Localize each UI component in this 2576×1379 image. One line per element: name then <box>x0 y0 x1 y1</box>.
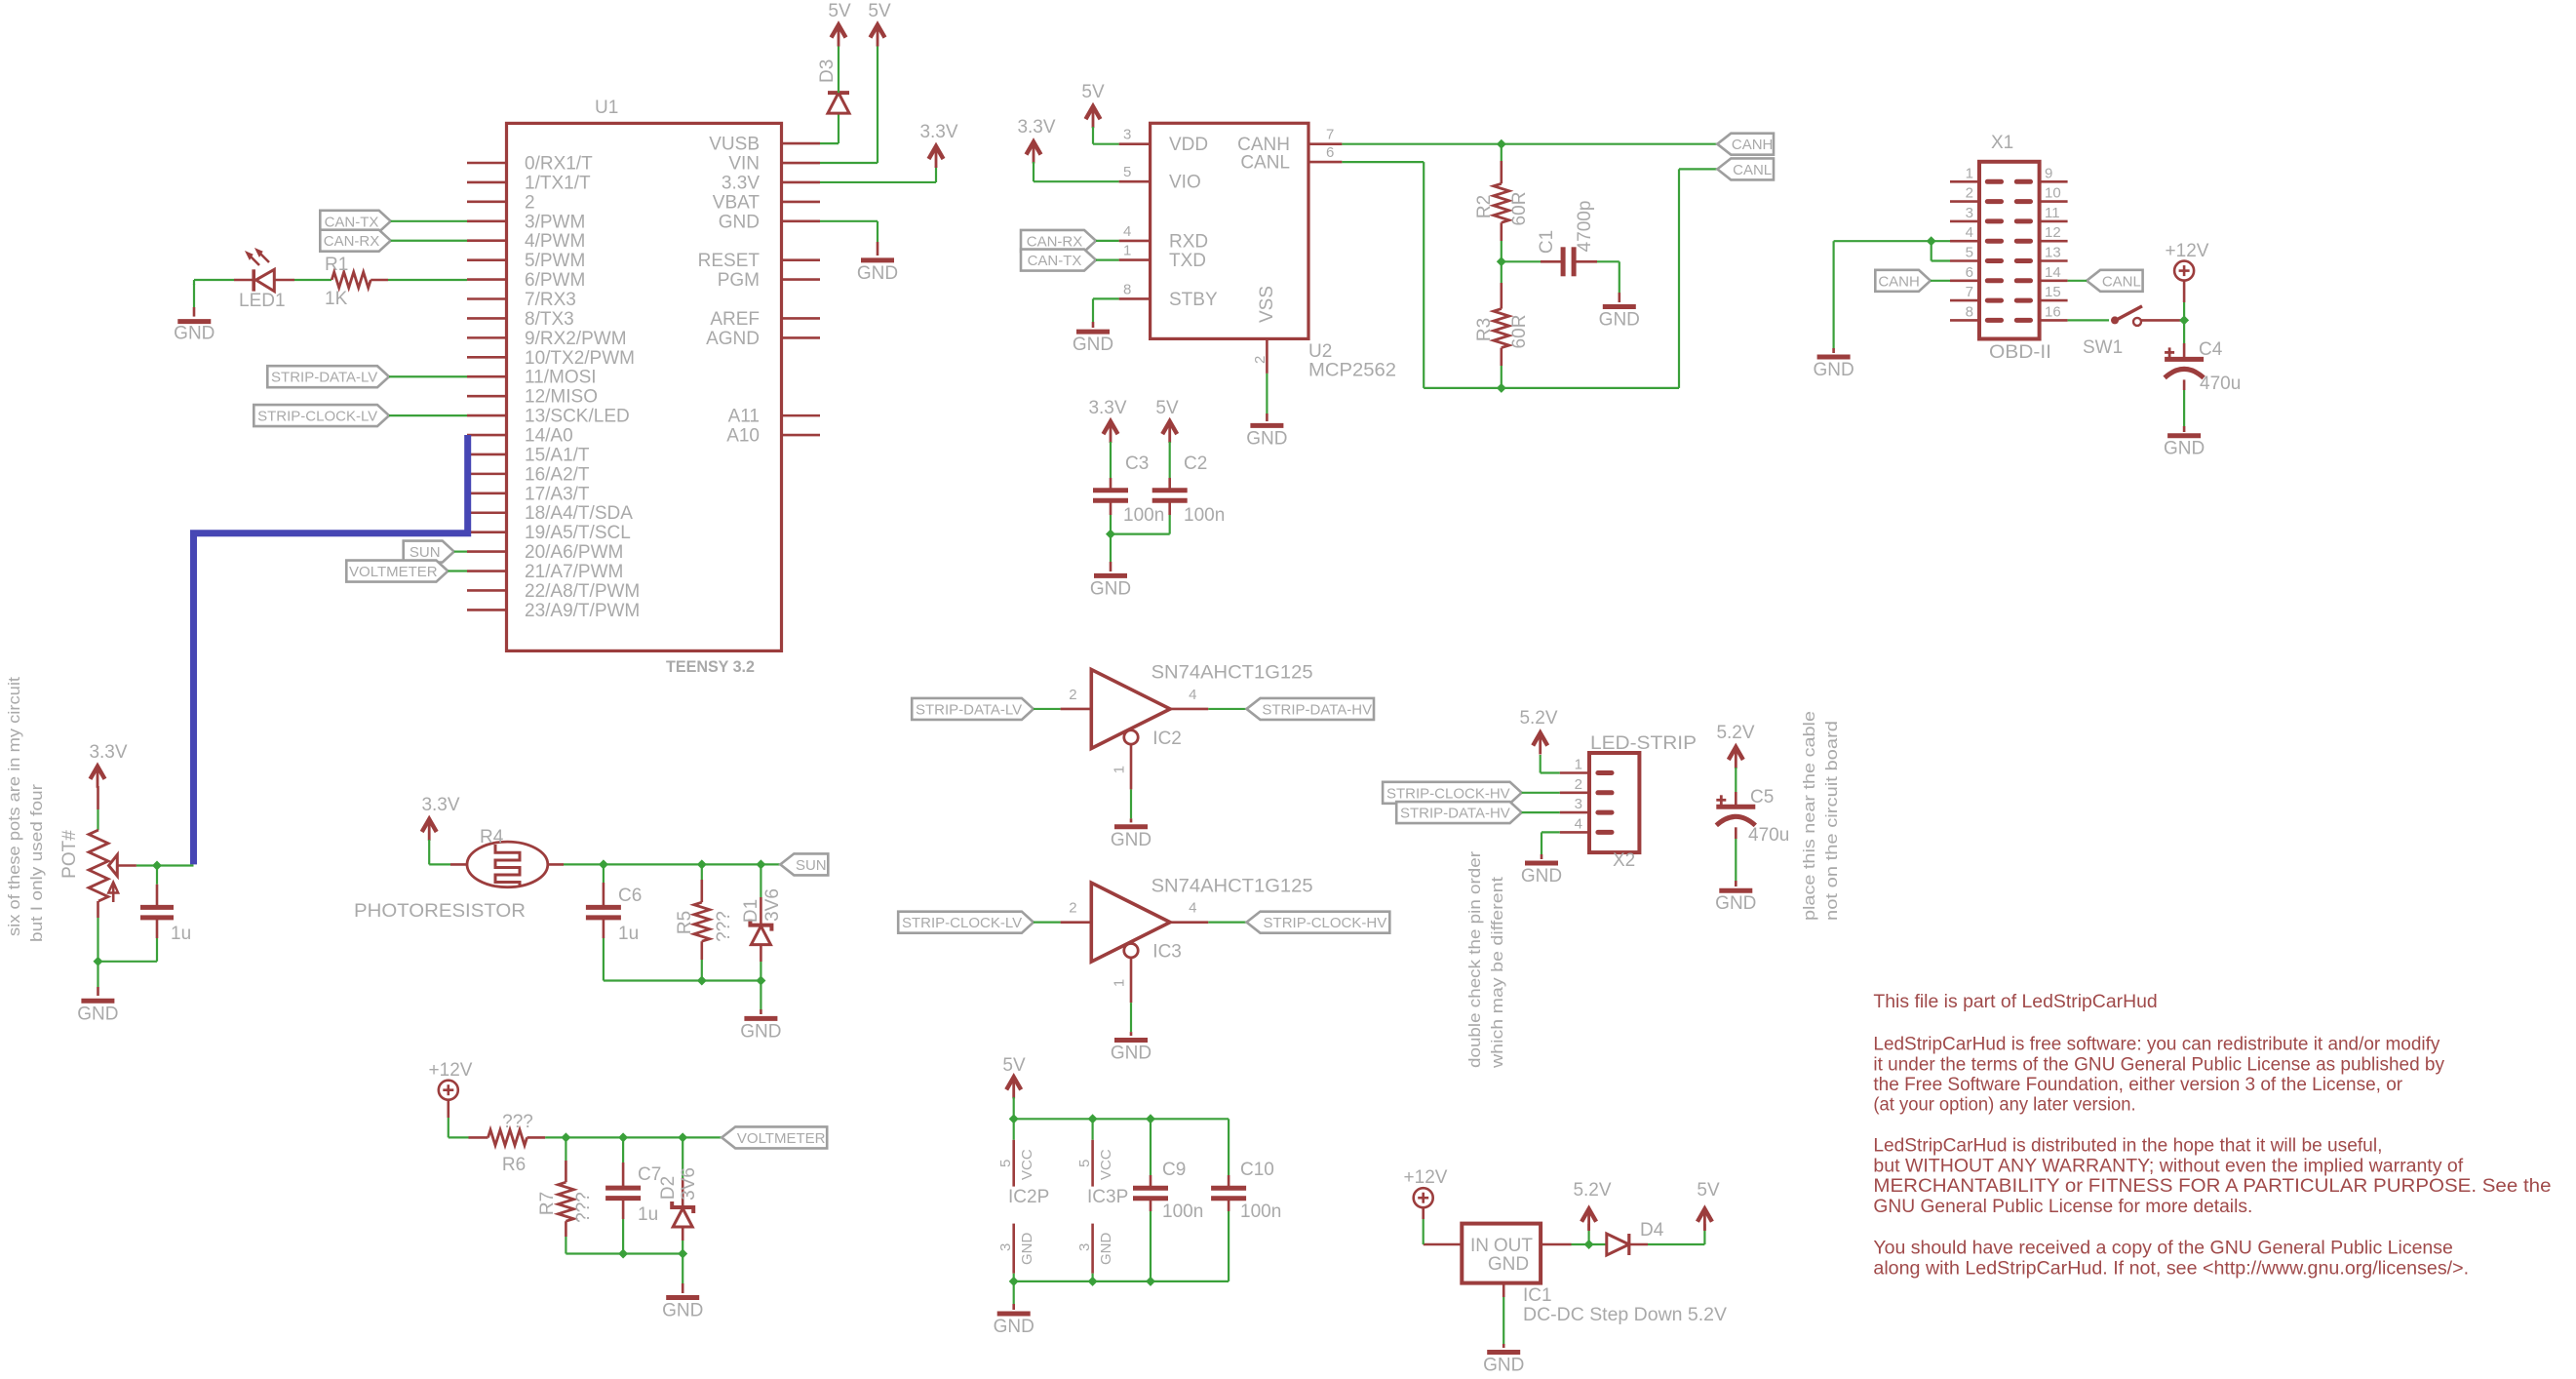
supply 3.3V (U1) <box>919 122 957 168</box>
net flag VOLTMETER (divider side) <box>722 1126 827 1148</box>
svg-text:GND: GND <box>1111 1044 1151 1064</box>
capacitor C3 100n <box>1093 453 1164 526</box>
svg-text:CANH: CANH <box>1732 137 1774 153</box>
svg-text:TXD: TXD <box>1169 251 1206 271</box>
net flag STRIP-CLOCK-HV (IC3 out) <box>1247 912 1390 933</box>
svg-text:CAN-TX: CAN-TX <box>325 214 379 230</box>
svg-text:GND: GND <box>719 212 760 232</box>
net flag CAN-TX (U1) <box>320 211 390 232</box>
wire VSS to GND <box>1266 374 1268 421</box>
svg-text:SW1: SW1 <box>2083 337 2123 358</box>
svg-text:2: 2 <box>525 192 535 213</box>
svg-text:STRIP-DATA-HV: STRIP-DATA-HV <box>1262 701 1372 718</box>
zener diode D1 3V6 <box>741 888 783 945</box>
svg-text:60R: 60R <box>1509 192 1530 226</box>
ground (C1) <box>1599 307 1640 331</box>
wire VIN to 5V <box>820 45 878 163</box>
svg-text:RXD: RXD <box>1169 231 1208 252</box>
svg-text:11: 11 <box>2045 205 2060 221</box>
svg-text:???: ??? <box>573 1192 594 1223</box>
supply 3.3V (C3) <box>1088 398 1126 443</box>
wire R3 to CANL line <box>1501 348 1503 388</box>
svg-text:STRIP-CLOCK-HV: STRIP-CLOCK-HV <box>1386 785 1510 802</box>
svg-text:C1: C1 <box>1537 230 1557 254</box>
supply 3.3V (POT) <box>89 742 127 788</box>
note: six of these pots <box>5 677 46 942</box>
svg-text:GND: GND <box>1488 1254 1529 1275</box>
wire C9 bottom <box>1150 1199 1152 1281</box>
svg-text:5V: 5V <box>1081 82 1105 102</box>
svg-text:X2: X2 <box>1613 850 1635 871</box>
power +12V (IC1) <box>1404 1167 1448 1207</box>
svg-text:VSS: VSS <box>1257 286 1277 323</box>
ground (C5) <box>1715 890 1756 914</box>
wire 5V to VCC bus <box>1013 1097 1015 1119</box>
supply 3.3V (R4) <box>421 795 459 841</box>
svg-text:5V: 5V <box>868 1 891 21</box>
svg-text:5: 5 <box>1123 164 1131 180</box>
svg-text:VUSB: VUSB <box>709 135 760 155</box>
wire X1 pin16 to SW1 <box>2068 319 2109 321</box>
svg-text:double check the pin order: double check the pin order <box>1465 851 1484 1068</box>
wire 5.2V to C5 <box>1735 768 1737 807</box>
wire CAN-TX to pin3 <box>391 220 467 222</box>
svg-text:VIO: VIO <box>1169 173 1201 193</box>
svg-text:4: 4 <box>1966 224 1973 241</box>
note: place this near the cable <box>1800 711 1841 921</box>
wire X2 pin4 to GND <box>1542 832 1560 859</box>
svg-text:8: 8 <box>1123 281 1131 297</box>
svg-text:1u: 1u <box>618 924 639 944</box>
GPL license text block <box>1873 992 2551 1280</box>
svg-text:CANH: CANH <box>1878 273 1920 290</box>
wire CANL net <box>1342 162 1717 393</box>
svg-text:3.3V: 3.3V <box>1017 117 1055 138</box>
svg-text:18/A4/T/SDA: 18/A4/T/SDA <box>525 503 633 524</box>
net flag STRIP-CLOCK-LV (U1) <box>254 405 389 426</box>
svg-text:LedStripCarHud is distributed: LedStripCarHud is distributed in the hop… <box>1873 1136 2382 1157</box>
svg-text:+12V: +12V <box>429 1060 473 1081</box>
svg-text:which may be different: which may be different <box>1488 877 1506 1069</box>
resistor R6 <box>488 1112 533 1175</box>
wire STBY to GND <box>1093 298 1119 328</box>
svg-text:14: 14 <box>2045 264 2061 281</box>
wire C4 to GND <box>2183 379 2186 432</box>
svg-text:6/PWM: 6/PWM <box>525 270 585 291</box>
svg-text:MERCHANTABILITY or FITNESS FOR: MERCHANTABILITY or FITNESS FOR A PARTICU… <box>1873 1176 2551 1197</box>
wire C10 bottom <box>1228 1199 1230 1281</box>
svg-text:7/RX3: 7/RX3 <box>525 290 576 310</box>
ground (U2 STBY) <box>1073 332 1113 355</box>
wire D1 to bus <box>760 946 762 981</box>
svg-text:D4: D4 <box>1640 1220 1664 1241</box>
svg-text:1: 1 <box>1111 766 1127 773</box>
ground (IC1) <box>1483 1353 1524 1376</box>
svg-text:D3: D3 <box>817 59 838 83</box>
zener diode D2 3V6 <box>658 1167 699 1227</box>
net flag SUN (R4 side) <box>780 853 828 875</box>
svg-text:9: 9 <box>2045 165 2052 181</box>
LED LED1 <box>239 249 286 311</box>
svg-text:12: 12 <box>2045 224 2061 241</box>
wire 5V to VDD <box>1093 127 1119 144</box>
svg-text:5: 5 <box>1076 1160 1093 1167</box>
microcontroller U1 TEENSY 3.2 <box>467 98 820 676</box>
svg-text:POT#: POT# <box>59 830 80 879</box>
net flag STRIP-CLOCK-LV (IC3 in) <box>898 912 1034 933</box>
svg-text:GND: GND <box>1098 1233 1114 1266</box>
svg-text:6: 6 <box>1966 264 1973 281</box>
resistor R5 <box>675 902 734 942</box>
svg-text:VBAT: VBAT <box>713 192 761 213</box>
svg-text:STRIP-CLOCK-LV: STRIP-CLOCK-LV <box>902 915 1022 931</box>
svg-text:C10: C10 <box>1240 1160 1274 1180</box>
svg-text:3/PWM: 3/PWM <box>525 212 585 232</box>
svg-text:This file is part of LedStripC: This file is part of LedStripCarHud <box>1873 992 2157 1012</box>
supply 5V (C2) <box>1155 398 1179 443</box>
power pins IC2P <box>997 1119 1049 1281</box>
svg-text:A11: A11 <box>728 407 760 427</box>
wire OUT node <box>1572 1224 1594 1249</box>
svg-text:CAN-TX: CAN-TX <box>1028 253 1082 269</box>
svg-text:8/TX3: 8/TX3 <box>525 309 574 330</box>
svg-text:CANL: CANL <box>1733 162 1772 178</box>
svg-text:GND: GND <box>77 1004 118 1024</box>
svg-text:60R: 60R <box>1509 315 1530 349</box>
capacitor 1u (POT filter) <box>140 907 191 944</box>
svg-text:not on the circuit board: not on the circuit board <box>1822 721 1841 921</box>
svg-text:6: 6 <box>1326 144 1334 161</box>
ground (IC3) <box>1111 1041 1151 1064</box>
svg-text:SUN: SUN <box>410 544 441 561</box>
buffer IC3 SN74AHCT1G125 <box>1061 876 1313 1036</box>
wire voltmeter bottom bus <box>566 1249 687 1294</box>
svg-text:4/PWM: 4/PWM <box>525 231 585 252</box>
wire U1 GND <box>820 221 878 256</box>
svg-text:3: 3 <box>997 1243 1014 1251</box>
wire STRIP-CLOCK-LV to IC3 <box>1034 922 1061 924</box>
svg-text:CAN-RX: CAN-RX <box>324 233 380 250</box>
svg-text:AGND: AGND <box>706 329 760 349</box>
svg-text:1: 1 <box>1575 757 1582 773</box>
wire node down to C8 <box>156 866 158 908</box>
svg-text:STRIP-DATA-LV: STRIP-DATA-LV <box>271 370 377 386</box>
wire CANH to R2 <box>1501 144 1503 184</box>
svg-text:16: 16 <box>2045 303 2061 320</box>
potentiometer POT# <box>59 830 118 902</box>
ground (LED1) <box>174 322 215 344</box>
wire LED1 to R1 <box>274 279 332 282</box>
svg-text:GND: GND <box>857 263 898 284</box>
wire CANH to X1 pin6 <box>1931 280 1950 282</box>
capacitor C9 100n <box>1133 1160 1203 1222</box>
supply 3.3V (U2 VIO) <box>1017 117 1055 164</box>
wire IC2 out <box>1208 708 1246 710</box>
photoresistor R4 <box>354 827 548 922</box>
svg-text:R2: R2 <box>1474 195 1495 218</box>
svg-text:along with LedStripCarHud. If: along with LedStripCarHud. If not, see <… <box>1873 1258 2469 1279</box>
net flag STRIP-DATA-LV (IC2 in) <box>912 698 1034 720</box>
svg-text:3.3V: 3.3V <box>919 122 957 142</box>
wire STRIP-CLOCK-LV to pin13 <box>389 414 467 416</box>
wire node to C4 <box>2183 320 2185 359</box>
regulator IC1 DC-DC Step Down 5.2V <box>1424 1224 1728 1325</box>
net flag STRIP-DATA-HV (X2) <box>1396 802 1521 823</box>
svg-text:3: 3 <box>1575 796 1582 812</box>
svg-text:GND: GND <box>1813 360 1854 380</box>
power +12V (X1) <box>2166 241 2209 281</box>
wire D2 to bus <box>682 1228 684 1254</box>
svg-text:D2: D2 <box>658 1176 679 1200</box>
connector X1 OBD-II <box>1950 133 2068 363</box>
svg-text:GND: GND <box>1019 1233 1035 1266</box>
svg-text:R5: R5 <box>675 911 695 934</box>
svg-text:3.3V: 3.3V <box>1088 398 1126 418</box>
svg-text:SN74AHCT1G125: SN74AHCT1G125 <box>1151 876 1313 896</box>
svg-text:U1: U1 <box>595 98 618 118</box>
wire IC3 out <box>1208 922 1246 924</box>
svg-text:3: 3 <box>1076 1243 1093 1251</box>
supply 5V (after D4) <box>1697 1180 1720 1231</box>
svg-text:R3: R3 <box>1474 318 1495 341</box>
svg-text:3V6: 3V6 <box>679 1167 699 1201</box>
svg-text:X1: X1 <box>1991 133 2013 153</box>
net flag STRIP-CLOCK-HV (X2) <box>1383 782 1522 804</box>
ground (IC2P/IC3P) <box>994 1314 1034 1337</box>
wire SW1 to +12V node <box>2141 315 2189 325</box>
wire SUN to pin20 <box>454 550 467 552</box>
svg-text:STRIP-CLOCK-HV: STRIP-CLOCK-HV <box>1264 915 1387 931</box>
supply 5.2V (IC1 out) <box>1573 1180 1611 1231</box>
svg-text:3: 3 <box>1123 127 1131 143</box>
svg-text:PHOTORESISTOR: PHOTORESISTOR <box>354 901 526 922</box>
svg-text:7: 7 <box>1326 127 1334 143</box>
svg-text:+12V: +12V <box>1404 1167 1448 1188</box>
wire GND bus <box>1009 1277 1229 1310</box>
svg-text:GND: GND <box>1521 866 1562 886</box>
net flag CAN-TX (U2) <box>1021 250 1096 271</box>
svg-text:GND: GND <box>1111 830 1151 850</box>
power pins IC3P <box>1076 1119 1128 1281</box>
wire X1 pin4/pin5 to GND <box>1834 236 1950 353</box>
wire C6 to bus <box>603 918 605 981</box>
svg-text:8: 8 <box>1966 303 1973 320</box>
svg-text:1: 1 <box>1123 243 1131 259</box>
net flag CANL (X1 side) <box>2087 270 2143 292</box>
svg-text:GND: GND <box>1599 310 1640 331</box>
svg-text:LED-STRIP: LED-STRIP <box>1590 733 1697 754</box>
svg-text:C6: C6 <box>618 886 642 906</box>
svg-text:VIN: VIN <box>728 154 760 175</box>
wire node to D1 <box>760 864 761 925</box>
switch SW1 <box>2083 306 2142 358</box>
svg-text:STRIP-DATA-HV: STRIP-DATA-HV <box>1400 806 1510 822</box>
wire R2 to node <box>1497 222 1506 266</box>
wire node to R7 <box>565 1137 566 1182</box>
net flag CAN-RX (U1) <box>320 230 390 252</box>
wire D4 to 5V <box>1629 1224 1705 1244</box>
svg-text:R7: R7 <box>537 1192 558 1215</box>
svg-text:R4: R4 <box>480 827 504 847</box>
svg-text:the Free Software Foundation,: the Free Software Foundation, either ver… <box>1873 1075 2402 1095</box>
svg-text:4700p: 4700p <box>1575 201 1595 253</box>
svg-text:5: 5 <box>1966 245 1973 261</box>
svg-text:VOLTMETER: VOLTMETER <box>349 564 438 580</box>
wire C1 to GND <box>1574 261 1620 302</box>
svg-text:5/PWM: 5/PWM <box>525 251 585 271</box>
svg-text:IN: IN <box>1470 1236 1489 1256</box>
svg-text:22/A8/T/PWM: 22/A8/T/PWM <box>525 581 640 602</box>
wire photoresistor bottom bus <box>604 976 766 1015</box>
svg-text:5.2V: 5.2V <box>1716 723 1754 743</box>
svg-text:VCC: VCC <box>1019 1149 1035 1180</box>
supply 5V (above D3) <box>828 1 851 47</box>
svg-text:3.3V: 3.3V <box>421 795 459 815</box>
svg-text:3: 3 <box>1966 205 1973 221</box>
connector X2 LED-STRIP <box>1560 733 1697 871</box>
svg-text:1u: 1u <box>638 1204 658 1225</box>
wire POT wiper to node <box>117 861 193 871</box>
wire 3.3V to VIO <box>1034 162 1119 181</box>
svg-text:CAN-RX: CAN-RX <box>1027 233 1083 250</box>
svg-text:100n: 100n <box>1184 505 1225 526</box>
ground (C3/C2) <box>1090 575 1131 599</box>
capacitor C6 1u <box>586 886 642 944</box>
svg-text:2: 2 <box>1966 185 1973 202</box>
wire node to C1 <box>1502 260 1563 262</box>
capacitor C2 100n <box>1152 453 1226 526</box>
diode D3 <box>817 59 849 113</box>
ground (POT) <box>77 1001 118 1024</box>
svg-text:5V: 5V <box>828 1 851 21</box>
svg-text:TEENSY 3.2: TEENSY 3.2 <box>666 657 755 676</box>
svg-text:PGM: PGM <box>718 270 760 291</box>
svg-text:470u: 470u <box>1748 825 1789 846</box>
svg-text:5V: 5V <box>1697 1180 1720 1201</box>
net flag VOLTMETER (U1) <box>346 561 448 582</box>
wire node to R5 <box>701 864 703 902</box>
svg-text:OBD-II: OBD-II <box>1989 342 2051 363</box>
wire C8 to bottom <box>98 918 157 962</box>
svg-text:LedStripCarHud is free softwar: LedStripCarHud is free software: you can… <box>1873 1035 2439 1055</box>
wire +12V to IN <box>1422 1207 1425 1244</box>
wire node to C6 <box>603 864 605 907</box>
ground (U1 GND pin) <box>857 260 898 284</box>
wire C5 to GND <box>1735 827 1737 886</box>
svg-text:You should have received a cop: You should have received a copy of the G… <box>1873 1239 2452 1259</box>
wire CANH net <box>1342 139 1717 149</box>
svg-text:7: 7 <box>1966 284 1973 300</box>
net flag SUN (U1) <box>404 541 454 563</box>
wire STRIP-DATA-LV to IC2 <box>1034 708 1061 710</box>
ground (D1) <box>740 1018 781 1042</box>
svg-text:13: 13 <box>2045 245 2061 261</box>
capacitor C4 470u <box>2165 339 2241 394</box>
wire 5V to C2 <box>1169 442 1171 491</box>
svg-text:IC3P: IC3P <box>1087 1187 1128 1207</box>
capacitor C1 4700p <box>1537 201 1595 277</box>
svg-text:GND: GND <box>994 1317 1034 1337</box>
svg-text:CANL: CANL <box>1240 153 1290 174</box>
svg-text:RESET: RESET <box>698 251 761 271</box>
wire 3.3V to POT <box>97 786 99 830</box>
wire D3 to 5V <box>838 46 839 93</box>
wire STRIP-CLOCK-HV to X2 pin2 <box>1522 792 1560 794</box>
svg-text:100n: 100n <box>1240 1202 1281 1222</box>
svg-text:10/TX2/PWM: 10/TX2/PWM <box>525 348 635 369</box>
wire +12V down <box>2183 281 2186 321</box>
svg-text:20/A6/PWM: 20/A6/PWM <box>525 542 623 563</box>
svg-text:six of these pots are in my ci: six of these pots are in my circuit <box>5 677 23 936</box>
svg-text:VCC: VCC <box>1098 1149 1114 1180</box>
svg-text:3V6: 3V6 <box>762 888 783 922</box>
svg-text:100n: 100n <box>1123 505 1164 526</box>
svg-text:2: 2 <box>1252 356 1268 364</box>
wire VCC bus <box>1009 1114 1229 1123</box>
svg-text:C9: C9 <box>1162 1160 1186 1180</box>
svg-text:2: 2 <box>1069 687 1076 703</box>
supply 5.2V (X2) <box>1519 708 1557 755</box>
wire 5.2V to X2 pin1 <box>1541 755 1560 773</box>
svg-text:15/A1/T: 15/A1/T <box>525 445 590 465</box>
wire 3.3V to R4 <box>429 840 467 864</box>
supply 5V (IC2P) <box>1002 1055 1026 1098</box>
svg-text:1u: 1u <box>171 924 191 944</box>
svg-text:GND: GND <box>1073 335 1113 355</box>
svg-text:but WITHOUT ANY WARRANTY; with: but WITHOUT ANY WARRANTY; without even t… <box>1873 1156 2464 1176</box>
supply 5V (VIN) <box>868 1 891 47</box>
svg-text:GND: GND <box>1246 428 1287 449</box>
svg-text:SN74AHCT1G125: SN74AHCT1G125 <box>1151 663 1313 684</box>
wire VOLTMETER to pin21 <box>448 570 467 571</box>
svg-text:2: 2 <box>1069 900 1076 917</box>
svg-text:1K: 1K <box>325 289 348 309</box>
svg-text:2: 2 <box>1575 776 1582 793</box>
wire CAN-RX to RXD <box>1096 240 1119 242</box>
svg-text:GND: GND <box>1715 893 1756 914</box>
svg-text:5V: 5V <box>1002 1055 1026 1076</box>
resistor R7 <box>537 1182 594 1223</box>
resistor R3 <box>1474 309 1530 349</box>
svg-text:MCP2562: MCP2562 <box>1308 361 1396 381</box>
svg-text:VOLTMETER: VOLTMETER <box>737 1130 826 1147</box>
wire X1 pin14 to CANL <box>2068 280 2088 282</box>
note: double check pin order <box>1465 851 1506 1070</box>
wire POT bottom to GND <box>94 901 103 996</box>
wire R1 to U1 pin6 <box>371 279 467 282</box>
svg-text:3.3V: 3.3V <box>89 742 127 763</box>
svg-text:U2: U2 <box>1308 341 1332 362</box>
svg-text:GND: GND <box>662 1301 703 1321</box>
svg-text:C4: C4 <box>2199 339 2223 360</box>
net flag CAN-RX (U2) <box>1021 230 1096 252</box>
svg-text:IC2: IC2 <box>1152 729 1182 749</box>
wire STRIP-DATA-LV to pin11 <box>389 375 467 377</box>
svg-text:1/TX1/T: 1/TX1/T <box>525 173 591 193</box>
svg-text:14/A0: 14/A0 <box>525 426 573 447</box>
svg-text:GND: GND <box>740 1021 781 1042</box>
svg-text:C5: C5 <box>1750 787 1774 808</box>
svg-text:5.2V: 5.2V <box>1519 708 1557 729</box>
wire C3/C2 to GND <box>1106 500 1170 571</box>
capacitor C5 470u <box>1716 787 1789 846</box>
diode D4 <box>1607 1220 1664 1255</box>
net flag CANH (X1 side) <box>1875 270 1931 292</box>
svg-text:5: 5 <box>997 1160 1014 1167</box>
svg-text:4: 4 <box>1189 900 1196 917</box>
svg-text:GND: GND <box>1483 1356 1524 1376</box>
svg-text:470u: 470u <box>2200 374 2241 394</box>
